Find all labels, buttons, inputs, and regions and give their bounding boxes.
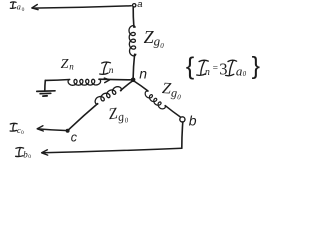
svg-text:c: c — [71, 130, 78, 144]
inductor Zg0 phase-b coil — [145, 91, 165, 109]
ground symbol bar 2 — [40, 92, 51, 94]
arrowhead Ic0 (pointing left) — [37, 126, 43, 131]
svg-text:n: n — [109, 66, 114, 76]
svg-text:a: a — [137, 0, 142, 10]
arrowhead Ia0 (pointing left) — [32, 5, 38, 10]
svg-text:{: { — [186, 52, 194, 80]
wire ground corner to Zn coil — [45, 79, 69, 82]
hand-drawn circuit schematic: three-phase wye with Zg0 impedances, neutral Zn to ground — [0, 0, 271, 186]
arrowhead In (pointing right at node n) — [104, 78, 109, 83]
inductor Zn coil — [68, 79, 101, 85]
arrowhead Ib0 (pointing left) — [42, 150, 48, 155]
svg-text:b: b — [189, 113, 197, 129]
ground symbol bar 3 — [43, 95, 47, 97]
node b terminal circle — [180, 117, 185, 122]
wire coil to node b — [165, 106, 180, 117]
wire node a down to Zg0 coil — [132, 7, 135, 27]
wire Ia0 arrow line (node a to left) — [33, 6, 132, 8]
node c junction dot — [66, 129, 70, 133]
label Ia0 (top left) — [10, 2, 16, 8]
label Ic0 — [10, 123, 17, 131]
equation current symbol I (Ia0) — [226, 60, 237, 76]
wire node b down — [182, 122, 183, 148]
wire bottom Ib0 line — [43, 148, 182, 153]
inductor Zg0 phase-a coil — [129, 26, 136, 56]
wire node n to Zg0 coil (phase b) — [134, 81, 148, 91]
wire Zn coil to node n — [99, 78, 131, 81]
wire down to ground — [44, 80, 47, 91]
equation current symbol I (In) — [197, 60, 209, 75]
wire node n to Zg0 coil (phase c) — [121, 81, 133, 91]
label In (neutral current) — [100, 62, 111, 74]
wire Ic0 arrow line — [38, 129, 66, 131]
svg-text:}: } — [252, 52, 260, 80]
ground symbol bar 1 — [37, 90, 55, 93]
wire coil to node c — [68, 104, 98, 131]
node a terminal circle — [133, 4, 136, 7]
svg-text:n: n — [139, 66, 147, 82]
inductor Zg0 phase-c coil — [95, 87, 121, 105]
label Ib0 — [16, 147, 24, 156]
node n junction dot — [131, 78, 136, 83]
wire coil to node n — [133, 54, 135, 79]
